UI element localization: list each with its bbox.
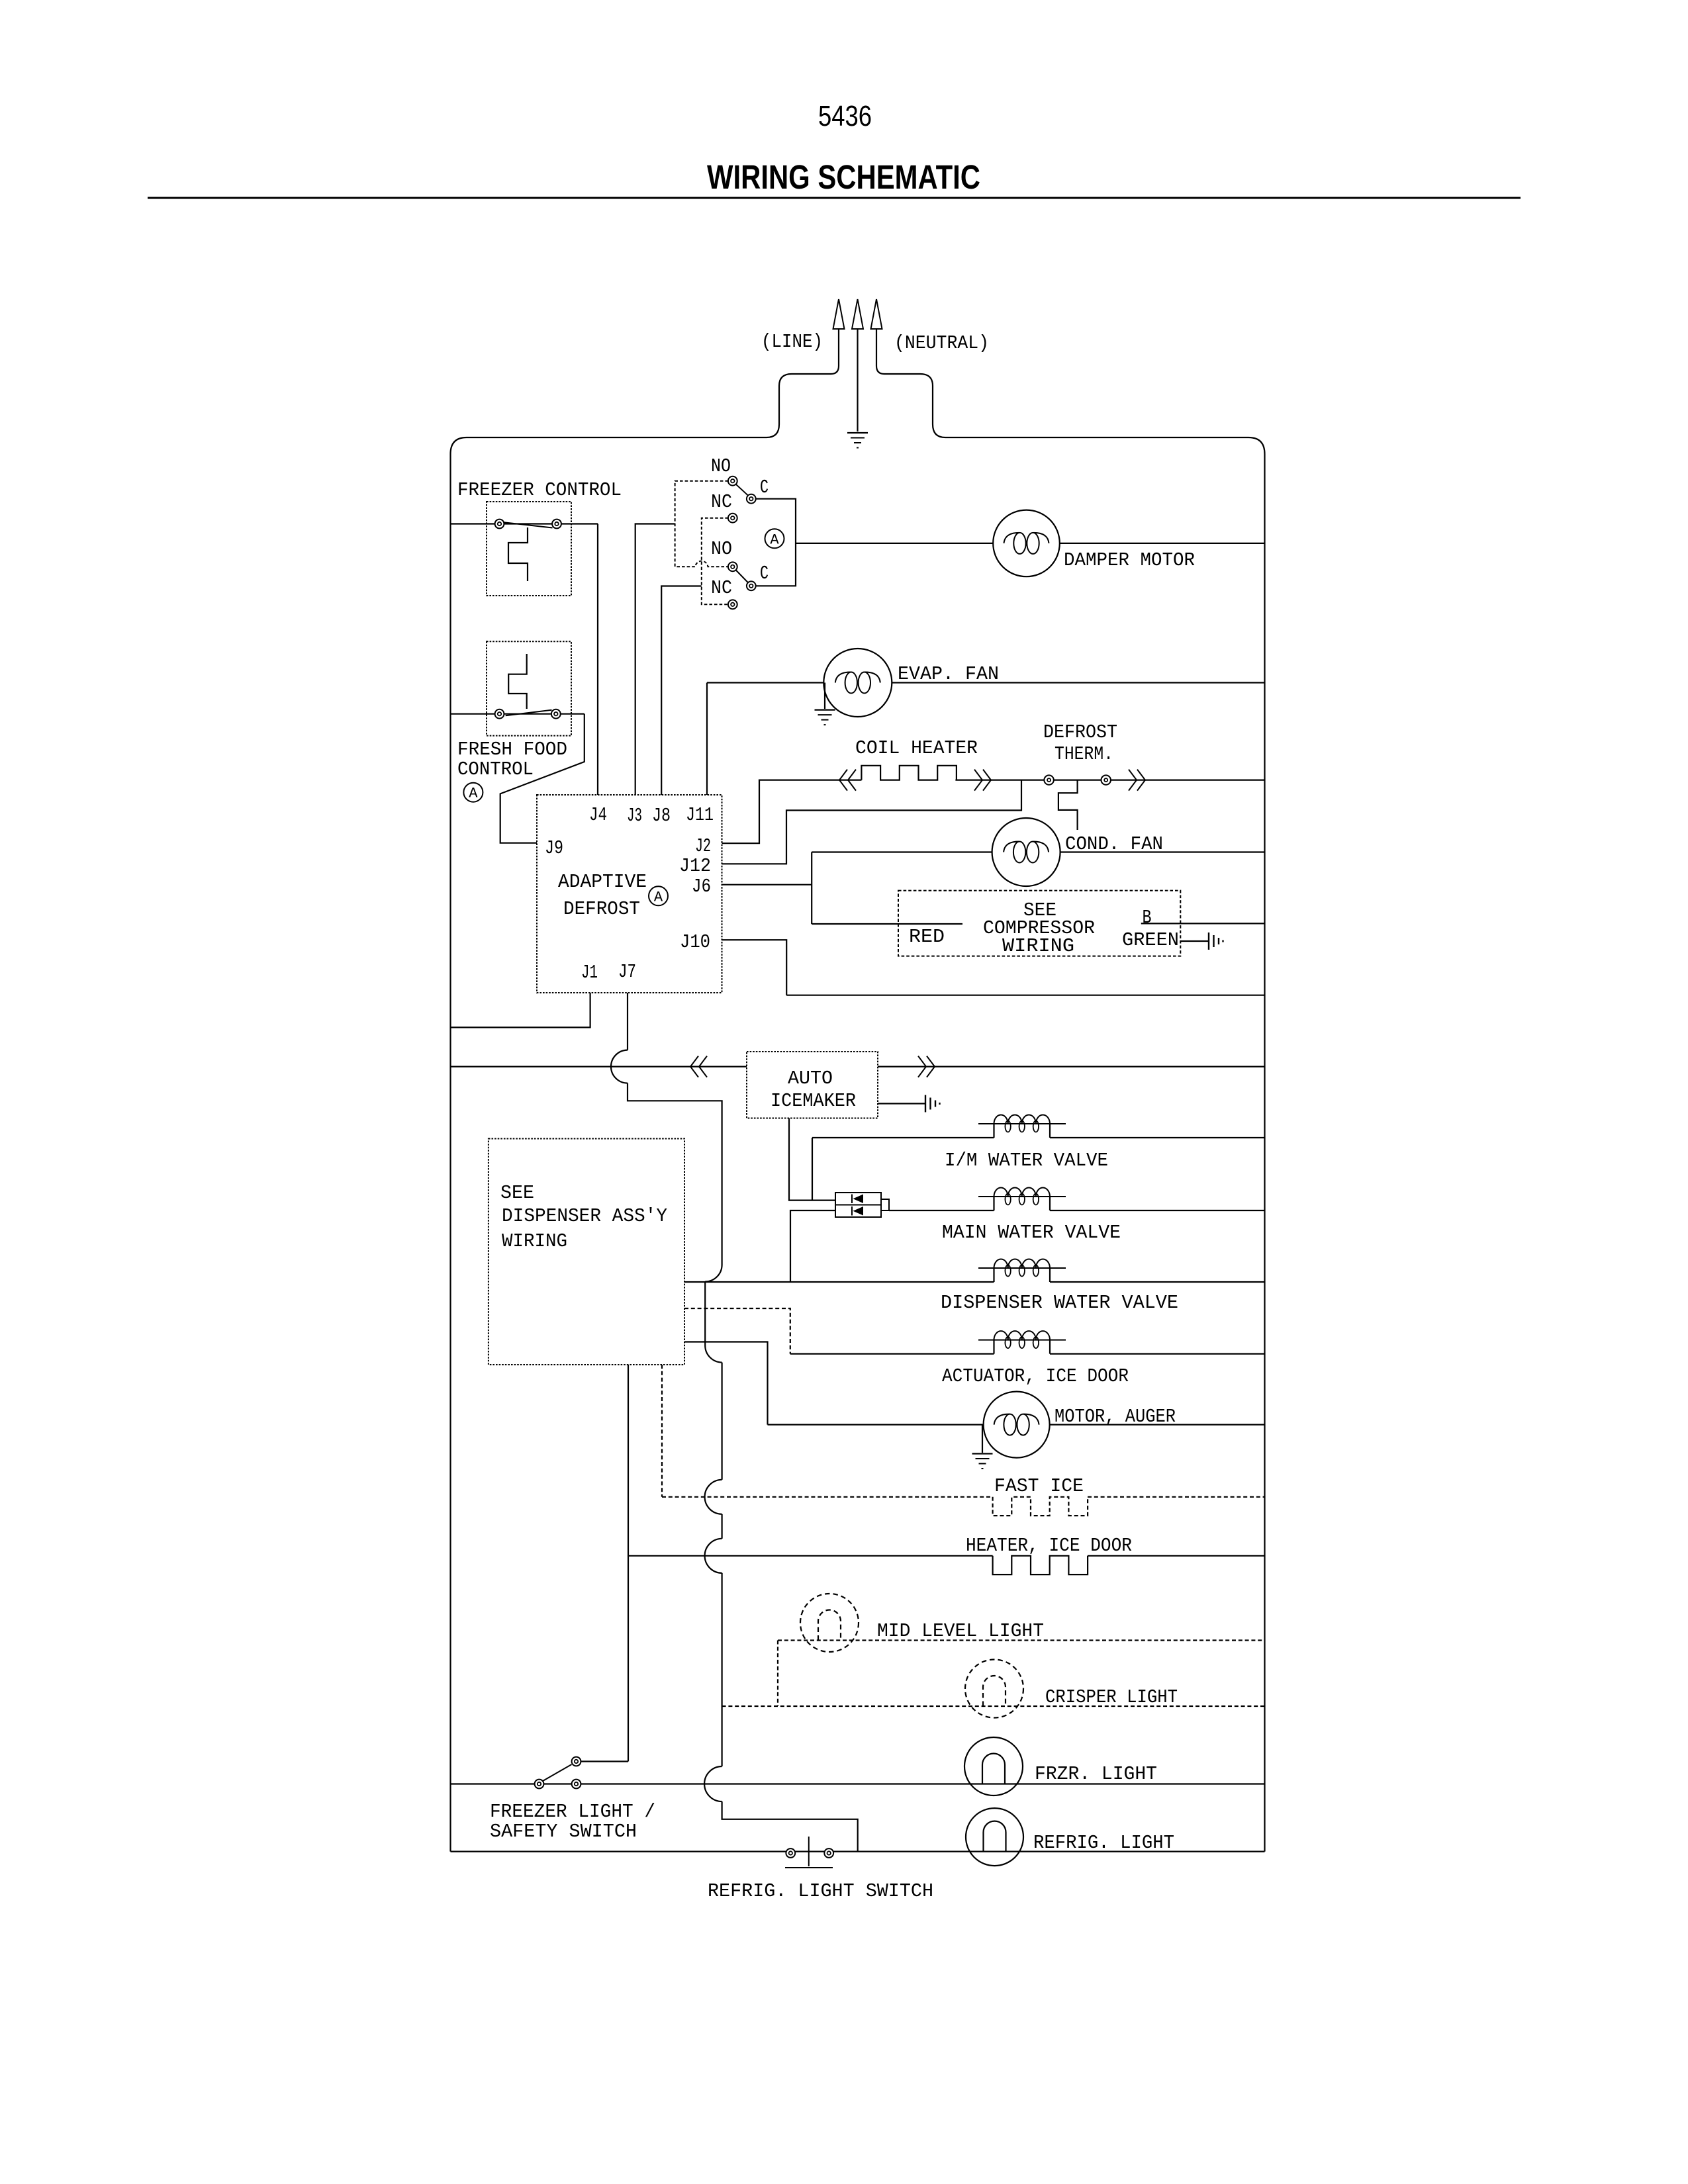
- wire fast ice right: [1088, 1496, 1265, 1498]
- wire hop over heater ice door: [705, 1539, 722, 1573]
- wire cond fan node vertical: [811, 852, 812, 925]
- auto icemaker box: [747, 1052, 878, 1118]
- outline left border: [449, 454, 451, 1852]
- svg-text:CRISPER LIGHT: CRISPER LIGHT: [1045, 1686, 1178, 1708]
- wire mid level light: [778, 1639, 1265, 1641]
- svg-text:J1: J1: [581, 962, 598, 983]
- svg-text:FAST ICE: FAST ICE: [994, 1475, 1084, 1497]
- svg-text:WIRING SCHEMATIC: WIRING SCHEMATIC: [707, 158, 980, 196]
- svg-text:REFRIG. LIGHT SWITCH: REFRIG. LIGHT SWITCH: [708, 1880, 933, 1902]
- svg-text:(NEUTRAL): (NEUTRAL): [894, 332, 989, 354]
- wire fast ice left: [662, 1496, 993, 1498]
- svg-text:J10: J10: [680, 931, 710, 953]
- wire J7 vertical upper: [627, 993, 628, 1050]
- mid level light lamp: [800, 1594, 859, 1652]
- auger motor M2: [984, 1392, 1050, 1458]
- diode block: [835, 1193, 881, 1217]
- evap fan motor: [823, 649, 892, 717]
- refrig light switch terminal right: [824, 1848, 833, 1858]
- wire J1 route: [451, 993, 590, 1027]
- svg-text:SAFETY SWITCH: SAFETY SWITCH: [490, 1821, 637, 1843]
- circled A (board): [649, 886, 668, 905]
- wire J11 vertical: [706, 683, 708, 796]
- coil heater element: [861, 766, 957, 780]
- wire jog back: [705, 1345, 722, 1363]
- svg-text:B: B: [1143, 907, 1152, 929]
- fresh food switch blade: [506, 710, 552, 716]
- svg-text:A: A: [469, 786, 478, 802]
- wire long vertical to refrig row: [722, 1801, 858, 1852]
- wire J2 to coil heater: [722, 780, 862, 844]
- svg-text:ICEMAKER: ICEMAKER: [771, 1090, 856, 1112]
- wire damper motor: [796, 543, 993, 544]
- wire auger motor: [768, 1424, 984, 1426]
- relay terminal C upper: [747, 494, 756, 504]
- wire dispenser water valve: [684, 1281, 994, 1283]
- freezer switch terminal left: [495, 520, 504, 529]
- wire I/M water valve: [812, 1137, 994, 1138]
- svg-text:COND. FAN: COND. FAN: [1065, 833, 1163, 855]
- wire neutral bus: [786, 995, 1264, 996]
- see dispenser box: [489, 1139, 684, 1365]
- cond fan motor: [992, 818, 1060, 886]
- svg-text:DEFROST: DEFROST: [1043, 721, 1117, 743]
- svg-text:NC: NC: [711, 577, 732, 599]
- svg-text:5436: 5436: [818, 100, 872, 132]
- wire J8 tap: [661, 586, 702, 796]
- svg-text:J4: J4: [589, 804, 607, 826]
- wire frzr light: [451, 1783, 1265, 1784]
- compressor box: [898, 891, 1180, 956]
- wire long vertical to fast ice hop: [721, 1363, 722, 1480]
- svg-text:(LINE): (LINE): [761, 331, 823, 353]
- ground (auger motor): [972, 1453, 993, 1454]
- relay terminal C lower: [747, 581, 756, 590]
- svg-text:WIRING: WIRING: [502, 1230, 567, 1252]
- wire J4 vertical: [597, 524, 598, 796]
- svg-text:J12: J12: [679, 855, 711, 877]
- ground (supply): [847, 432, 868, 433]
- wire NEUTRAL stem to outline top-right: [876, 330, 1248, 437]
- svg-text:MAIN WATER VALVE: MAIN WATER VALVE: [942, 1222, 1121, 1244]
- wire heater ice door left: [628, 1555, 993, 1557]
- circled A (relay): [765, 529, 784, 548]
- wire dispenser box to auger: [684, 1342, 768, 1425]
- wire long vertical between hops: [721, 1514, 722, 1539]
- main water valve coil: [978, 1196, 1066, 1197]
- chassis ground (compressor): [1208, 933, 1209, 950]
- relay contact box: [756, 499, 796, 586]
- wire J3 tap: [635, 524, 675, 796]
- svg-text:A: A: [654, 889, 663, 905]
- wire dashed from dispenser box: [684, 1308, 790, 1354]
- defrost therm terminal left: [1044, 775, 1053, 784]
- damper motor M1: [993, 510, 1060, 577]
- wire icemaker to right border: [878, 1066, 1265, 1067]
- freezer safety switch blade: [543, 1764, 572, 1781]
- svg-text:NC: NC: [711, 491, 732, 513]
- dispenser water valve coil: [978, 1267, 1066, 1269]
- defrost therm sensing element: [1058, 780, 1078, 830]
- wire dispenser box lower solid: [628, 1365, 629, 1762]
- relay blade upper: [736, 484, 748, 496]
- wire main valve from diode: [889, 1210, 994, 1211]
- svg-text:FREEZER LIGHT /: FREEZER LIGHT /: [490, 1801, 655, 1823]
- wire long vertical to frzr hop: [721, 1573, 722, 1766]
- svg-text:FRZR. LIGHT: FRZR. LIGHT: [1035, 1763, 1157, 1785]
- wire J12 route: [722, 780, 1022, 864]
- refrig light switch plunger: [808, 1837, 810, 1866]
- wire to compressor RED: [812, 923, 962, 925]
- relay blade lower: [736, 570, 748, 583]
- wire icemaker to diode: [789, 1118, 835, 1201]
- wire freezer control from left border: [451, 523, 598, 524]
- freezer safety switch terminal common: [535, 1780, 544, 1789]
- refrig light switch terminal left: [786, 1848, 795, 1858]
- svg-text:FRESH FOOD: FRESH FOOD: [457, 739, 567, 760]
- relay terminal NO lower: [728, 562, 737, 571]
- ground (evap fan): [815, 709, 835, 710]
- wire coil heater to defrost therm: [955, 779, 1264, 780]
- wire refrig light bottom border: [451, 1851, 1265, 1852]
- chevrons right (coil heater): [974, 770, 982, 791]
- fast ice heater element: [993, 1497, 1088, 1516]
- wire crisper light: [722, 1706, 1265, 1707]
- relay dashed box upper: [675, 481, 728, 567]
- circled A (fresh food): [463, 783, 483, 802]
- svg-text:NO: NO: [711, 455, 731, 477]
- wire fresh food control from left border: [451, 713, 585, 715]
- freezer safety switch terminal lower: [572, 1780, 581, 1789]
- svg-text:WIRING: WIRING: [1002, 935, 1074, 957]
- wire compressor B to right border: [1141, 923, 1265, 924]
- svg-text:J8: J8: [652, 805, 671, 827]
- wire hop over fast ice: [705, 1480, 722, 1514]
- defrost therm terminal right: [1102, 775, 1111, 784]
- wire compressor GREEN to ground: [1180, 940, 1209, 942]
- svg-text:THERM.: THERM.: [1055, 743, 1113, 765]
- svg-text:J9: J9: [545, 837, 563, 859]
- svg-text:RED: RED: [909, 926, 945, 948]
- wire jog vertical: [704, 1282, 706, 1346]
- wire heater ice door right: [1088, 1555, 1265, 1557]
- svg-text:FREEZER CONTROL: FREEZER CONTROL: [457, 479, 622, 501]
- outline top-right corner: [1248, 437, 1265, 454]
- arrow NEUTRAL: [871, 299, 882, 329]
- relay terminal NO upper: [728, 477, 737, 486]
- wire J10 route: [722, 940, 787, 995]
- svg-text:A: A: [770, 531, 779, 548]
- wire jog onto dispenser valve wire: [705, 1265, 722, 1282]
- svg-text:CONTROL: CONTROL: [457, 758, 534, 780]
- wire icemaker from left border: [451, 1066, 747, 1067]
- svg-text:ACTUATOR, ICE DOOR: ACTUATOR, ICE DOOR: [942, 1365, 1129, 1387]
- fresh food control box: [487, 641, 571, 735]
- ground stem (evap fan): [824, 683, 825, 709]
- svg-text:J2: J2: [695, 835, 711, 857]
- wire cond fan: [812, 851, 992, 852]
- actuator ice door coil: [978, 1340, 1066, 1341]
- wire LINE stem to outline top-left: [467, 330, 839, 437]
- freezer safety switch link: [581, 1760, 628, 1762]
- svg-text:J6: J6: [692, 876, 711, 897]
- wire dispenser box lower dashed: [661, 1365, 663, 1497]
- svg-text:SEE: SEE: [500, 1182, 534, 1204]
- arrow LINE: [833, 299, 845, 329]
- svg-text:REFRIG. LIGHT: REFRIG. LIGHT: [1033, 1832, 1174, 1854]
- ground stem (auger): [982, 1425, 983, 1453]
- crisper light lamp: [965, 1660, 1023, 1718]
- svg-text:MID LEVEL LIGHT: MID LEVEL LIGHT: [877, 1620, 1044, 1642]
- wire hop J7 over icemaker wire: [611, 1050, 628, 1083]
- frzr light lamp: [964, 1737, 1023, 1796]
- svg-text:AUTO: AUTO: [788, 1068, 833, 1089]
- chevrons right (defrost therm): [1129, 770, 1137, 791]
- I/M water valve coil: [978, 1123, 1066, 1124]
- chevrons left (coil heater): [839, 770, 847, 791]
- adaptive defrost board: [537, 795, 722, 993]
- svg-text:J11: J11: [686, 804, 714, 826]
- wire evap fan: [707, 682, 823, 683]
- wire J7 to long vertical: [628, 1083, 722, 1265]
- title rule: [148, 197, 1521, 199]
- svg-text:DEFROST: DEFROST: [563, 898, 640, 920]
- svg-text:EVAP. FAN: EVAP. FAN: [898, 663, 999, 685]
- fresh food thermostat element: [508, 654, 527, 709]
- freezer safety switch terminal upper: [572, 1757, 581, 1766]
- svg-text:ADAPTIVE: ADAPTIVE: [558, 871, 647, 893]
- svg-text:GREEN: GREEN: [1122, 929, 1179, 951]
- svg-text:J3: J3: [627, 805, 642, 827]
- arrow ground: [852, 299, 863, 329]
- svg-text:COIL HEATER: COIL HEATER: [855, 737, 978, 759]
- chevrons right (icemaker): [918, 1056, 926, 1077]
- wire diode lower-left branch: [790, 1210, 835, 1282]
- relay dashed box lower: [702, 518, 728, 605]
- svg-text:NO: NO: [711, 538, 732, 560]
- wire J6 route: [722, 884, 812, 886]
- wire mid level branch: [777, 1641, 778, 1707]
- freezer thermostat element: [508, 527, 528, 581]
- wire actuator ice door: [790, 1353, 994, 1354]
- freezer control box: [487, 502, 571, 596]
- refrig light lamp: [966, 1808, 1023, 1866]
- outline right border: [1264, 454, 1265, 1852]
- relay terminal NC upper: [728, 514, 737, 523]
- svg-text:J7: J7: [618, 961, 636, 983]
- wire hop over frzr wire: [704, 1766, 722, 1801]
- svg-text:I/M WATER VALVE: I/M WATER VALVE: [945, 1150, 1108, 1171]
- svg-text:C: C: [760, 477, 769, 498]
- relay terminal NC lower: [728, 600, 737, 609]
- svg-text:MOTOR, AUGER: MOTOR, AUGER: [1055, 1406, 1176, 1428]
- freezer switch blade: [504, 522, 553, 527]
- svg-text:HEATER, ICE DOOR: HEATER, ICE DOOR: [966, 1535, 1132, 1557]
- freezer switch terminal right: [552, 520, 561, 529]
- fresh food switch terminal left: [495, 709, 504, 719]
- wire icemaker ground lead: [878, 1103, 925, 1104]
- svg-text:DISPENSER WATER VALVE: DISPENSER WATER VALVE: [941, 1292, 1178, 1314]
- heater ice door element: [993, 1556, 1088, 1574]
- wire I/M valve tap: [812, 1138, 813, 1201]
- chassis ground (icemaker): [925, 1095, 926, 1113]
- wire fresh food to J9: [500, 714, 585, 843]
- wire ground stem: [857, 330, 858, 432]
- outline top-left corner: [451, 437, 467, 454]
- chevrons left (icemaker): [690, 1056, 698, 1077]
- svg-text:DISPENSER ASS'Y: DISPENSER ASS'Y: [502, 1205, 667, 1227]
- svg-text:DAMPER MOTOR: DAMPER MOTOR: [1064, 549, 1195, 571]
- svg-text:C: C: [760, 563, 769, 584]
- fresh food switch terminal right: [551, 709, 561, 719]
